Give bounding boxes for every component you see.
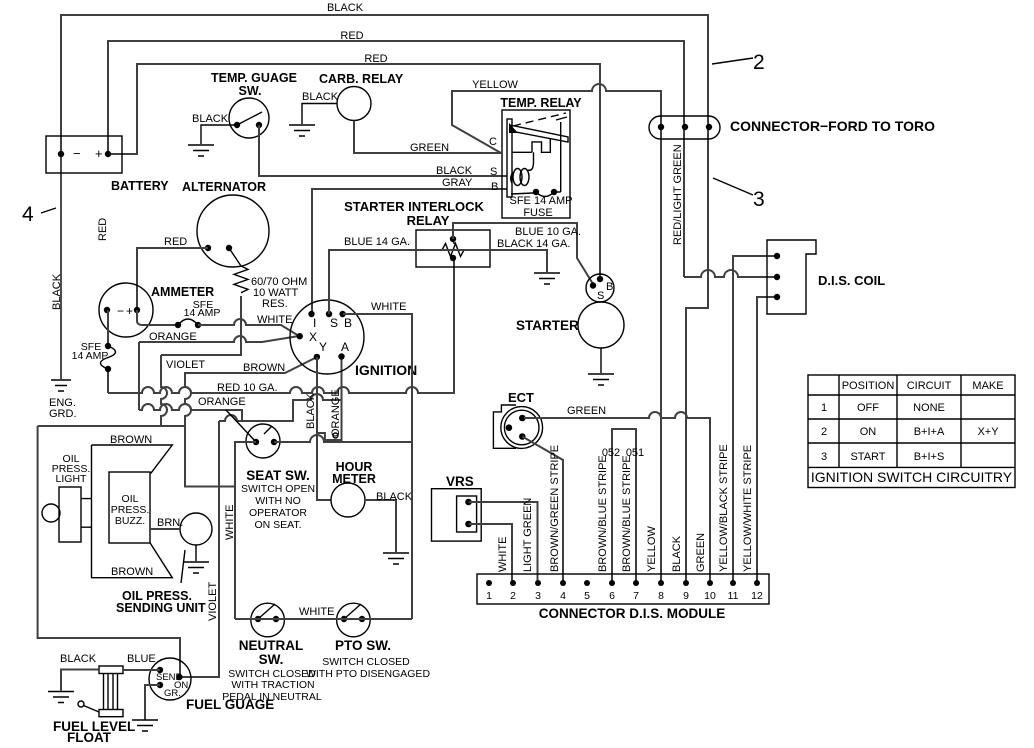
svg-text:START: START (850, 451, 885, 463)
svg-text:BROWN/BLUE STRIPE: BROWN/BLUE STRIPE (597, 455, 609, 572)
svg-text:SW.: SW. (239, 84, 262, 98)
svg-text:IGNITION: IGNITION (355, 362, 417, 378)
svg-text:YELLOW/BLACK STRIPE: YELLOW/BLACK STRIPE (718, 444, 730, 572)
svg-text:ORANGE: ORANGE (149, 331, 197, 343)
svg-text:WITH NO: WITH NO (255, 495, 301, 507)
temp relay fuse (510, 122, 573, 219)
oil press sending unit (116, 513, 212, 615)
temp relay armature (509, 113, 568, 142)
svg-text:9: 9 (683, 590, 689, 602)
svg-text:11: 11 (728, 590, 739, 602)
svg-text:BROWN: BROWN (243, 362, 285, 374)
svg-text:14 AMP: 14 AMP (184, 307, 221, 319)
connector ford to toro oval (649, 116, 935, 139)
svg-text:6: 6 (609, 590, 615, 602)
svg-text:7: 7 (633, 590, 639, 602)
wire green carb relay to temp relay C (354, 121, 501, 155)
wire feed to fuel gauge send (38, 426, 180, 677)
svg-text:SFE 14 AMP: SFE 14 AMP (510, 195, 573, 207)
ground fuel gr (132, 720, 158, 731)
svg-text:4: 4 (22, 203, 34, 226)
neutral switch (222, 603, 322, 703)
wire yellow temp relay C to connector (452, 79, 661, 153)
svg-text:B: B (491, 181, 498, 193)
svg-text:BLACK 14 GA.: BLACK 14 GA. (497, 238, 570, 250)
svg-text:STARTER INTERLOCK: STARTER INTERLOCK (344, 199, 484, 214)
svg-text:BROWN: BROWN (110, 434, 152, 446)
wire violet column left (161, 355, 205, 426)
svg-text:LIGHT GREEN: LIGHT GREEN (522, 498, 534, 572)
svg-text:RES.: RES. (262, 298, 288, 310)
wire gray relay B to ignition I (312, 177, 507, 314)
svg-text:GRD.: GRD. (49, 408, 77, 420)
svg-text:ON SEAT.: ON SEAT. (254, 519, 301, 531)
carb relay (302, 72, 404, 121)
svg-text:+: + (126, 304, 133, 318)
svg-text:BROWN: BROWN (111, 566, 153, 578)
svg-text:BROWN/BLUE STRIPE: BROWN/BLUE STRIPE (621, 455, 633, 572)
svg-text:BLUE 10 GA.: BLUE 10 GA. (515, 226, 581, 238)
svg-text:X+Y: X+Y (977, 426, 999, 438)
wire red connector to DIS coil middle pin with hops (684, 127, 777, 277)
svg-text:2: 2 (753, 51, 765, 74)
oil press buzzer horn (92, 434, 173, 578)
svg-text:WHITE: WHITE (257, 314, 292, 326)
svg-text:ORANGE: ORANGE (330, 389, 342, 437)
starter motor (516, 302, 624, 348)
wire black temp switch to relay S (259, 125, 507, 177)
svg-text:RELAY: RELAY (407, 213, 450, 228)
fuse sfe 14 amp ammeter right (137, 299, 220, 328)
svg-text:14 AMP: 14 AMP (72, 350, 109, 362)
wire yellow/white stripe coil to pin 12 (757, 297, 777, 583)
svg-text:RED: RED (164, 236, 187, 248)
svg-text:I: I (313, 316, 316, 330)
svg-text:B: B (606, 281, 613, 293)
svg-text:1: 1 (821, 402, 827, 414)
label red vertical battery (97, 218, 109, 241)
svg-text:GREEN: GREEN (567, 405, 606, 417)
wire blue 10 ga interlock to starter S (453, 223, 593, 284)
fuse sfe 14 amp battery column (72, 310, 116, 393)
svg-text:ECT: ECT (508, 390, 534, 405)
wire green ect to pin 10 (524, 405, 710, 583)
svg-text:BUZZ.: BUZZ. (115, 515, 145, 527)
svg-text:BLACK: BLACK (302, 91, 339, 103)
svg-text:CONNECTOR−FORD TO TORO: CONNECTOR−FORD TO TORO (730, 118, 935, 134)
svg-text:1: 1 (486, 590, 492, 602)
svg-text:8: 8 (658, 590, 664, 602)
temp guage switch (211, 71, 297, 138)
pin wire labels vertical (497, 444, 754, 572)
wire orange upper to ignition X (139, 331, 299, 343)
wire resistor drop to left column (161, 296, 241, 355)
svg-text:B+I+A: B+I+A (914, 426, 945, 438)
svg-text:12: 12 (751, 590, 763, 602)
svg-text:ALTERNATOR: ALTERNATOR (182, 180, 266, 194)
svg-text:LIGHT: LIGHT (56, 473, 88, 485)
wire violet to fuel gauge (181, 421, 219, 677)
ground black 14 ga (534, 273, 560, 284)
wire seat switch right to white column (274, 435, 412, 442)
wire orange link column (138, 342, 140, 410)
callout 2 (712, 51, 765, 74)
svg-text:BRN.: BRN. (157, 517, 183, 529)
alternator (182, 180, 269, 267)
ground eng grd (49, 154, 77, 420)
svg-text:SWITCH OPEN: SWITCH OPEN (241, 483, 315, 495)
svg-text:3: 3 (753, 188, 765, 211)
svg-text:YELLOW/WHITE STRIPE: YELLOW/WHITE STRIPE (742, 445, 754, 572)
svg-text:BLUE 14 GA.: BLUE 14 GA. (344, 236, 410, 248)
temp relay inner bar (507, 119, 512, 197)
svg-text:A: A (341, 340, 349, 354)
wire light green vrs to pin 3 (469, 502, 538, 583)
svg-text:WHITE: WHITE (371, 301, 406, 313)
wire black ignition Y to hour meter (305, 357, 331, 500)
seat switch (226, 410, 315, 531)
oil press buzz box (109, 472, 150, 543)
svg-text:FUEL GUAGE: FUEL GUAGE (186, 697, 274, 712)
svg-text:RED/LIGHT GREEN: RED/LIGHT GREEN (672, 144, 684, 245)
temp relay coil (511, 152, 534, 185)
svg-text:−: − (117, 304, 124, 318)
temp relay box (489, 96, 582, 218)
svg-text:S: S (490, 166, 497, 178)
svg-text:METER: METER (332, 472, 376, 486)
oil press light (42, 453, 92, 542)
svg-text:VIOLET: VIOLET (166, 359, 205, 371)
svg-text:GREEN: GREEN (410, 142, 449, 154)
svg-text:2: 2 (510, 590, 516, 602)
svg-text:BLACK: BLACK (60, 653, 97, 665)
starter interlock relay (344, 199, 490, 267)
wire red battery to ignition B feed (108, 53, 600, 279)
svg-text:2: 2 (821, 426, 827, 438)
svg-text:BATTERY: BATTERY (111, 179, 169, 193)
svg-text:GREEN: GREEN (695, 533, 707, 572)
resistor 60/70 ohm (229, 248, 307, 310)
callout 3 (713, 178, 765, 211)
svg-text:BLUE: BLUE (127, 653, 156, 665)
ground hour meter (383, 553, 409, 564)
bus red 10 ga (108, 258, 454, 394)
label red/light green (672, 144, 684, 245)
svg-text:OPERATOR: OPERATOR (249, 507, 307, 519)
svg-text:WITH TRACTION: WITH TRACTION (231, 679, 314, 691)
svg-text:BLACK: BLACK (671, 535, 683, 572)
svg-text:FUSE: FUSE (523, 207, 552, 219)
svg-text:ORANGE: ORANGE (198, 396, 246, 408)
svg-text:SEAT SW.: SEAT SW. (246, 468, 310, 483)
ground temp guage switch (188, 113, 237, 156)
ground float black (48, 692, 74, 703)
svg-text:CIRCUIT: CIRCUIT (907, 380, 952, 392)
svg-text:WHITE: WHITE (224, 505, 236, 540)
svg-text:X: X (309, 330, 317, 344)
svg-text:RED: RED (340, 30, 363, 42)
wire link to oil press area (38, 425, 185, 427)
ground carb relay (289, 104, 337, 137)
svg-text:BLACK: BLACK (376, 491, 413, 503)
wire gr fuel gauge to ground (145, 685, 160, 720)
svg-text:AMMETER: AMMETER (151, 285, 214, 299)
wire ignition S column (328, 249, 330, 314)
wire white fuse to ignition X (198, 314, 299, 336)
ammeter (99, 283, 214, 337)
wire red alternator to ammeter (137, 236, 208, 310)
ignition switch (290, 300, 417, 378)
ect sensor (493, 390, 542, 448)
svg-text:BLACK: BLACK (436, 165, 473, 177)
svg-text:D.I.S. COIL: D.I.S. COIL (818, 273, 885, 288)
fuel gauge (149, 658, 274, 712)
svg-text:SWITCH CLOSED: SWITCH CLOSED (322, 656, 410, 668)
wire brown ignition Y drop (185, 357, 317, 487)
wire brown/green stripe ect to pin 4 (522, 437, 563, 584)
wire bracket 052 051 pins 6 7 (602, 429, 644, 583)
wire red/light green connector to pin 8 (660, 127, 662, 583)
svg-text:CARB. RELAY: CARB. RELAY (319, 72, 404, 86)
wire black float to ground (60, 653, 99, 691)
svg-text:NONE: NONE (913, 402, 945, 414)
svg-text:Y: Y (319, 340, 327, 354)
wire white vrs to pin 2 (469, 524, 513, 583)
pto switch (306, 603, 430, 680)
svg-text:S: S (597, 290, 604, 302)
svg-text:SW.: SW. (259, 652, 284, 667)
svg-text:POSITION: POSITION (842, 380, 895, 392)
svg-text:GR.: GR. (164, 688, 181, 699)
vrs sensor (432, 474, 482, 541)
dis coil (767, 240, 885, 314)
wire white neutral to pto chain (235, 606, 412, 619)
wire yellow/black stripe coil to pin 11 (733, 256, 777, 583)
svg-text:BLACK: BLACK (305, 392, 317, 429)
svg-text:4: 4 (560, 590, 566, 602)
svg-text:NEUTRAL: NEUTRAL (239, 638, 304, 653)
wire blue float to fuel gauge (123, 653, 160, 670)
wire blue 14 ga (329, 236, 570, 272)
wire white ignition B to pto column (343, 301, 412, 619)
svg-text:FLOAT: FLOAT (67, 730, 112, 745)
svg-text:WHITE: WHITE (299, 606, 334, 618)
svg-text:VRS: VRS (446, 474, 474, 489)
svg-text:RED 10 GA.: RED 10 GA. (217, 382, 278, 394)
svg-text:OFF: OFF (857, 402, 879, 414)
svg-text:YELLOW: YELLOW (646, 526, 658, 572)
svg-text:WHITE: WHITE (497, 537, 509, 572)
svg-text:+: + (95, 146, 103, 161)
svg-text:B+I+S: B+I+S (914, 451, 945, 463)
label orange vertical A wire (330, 389, 342, 437)
temp relay contact step (512, 139, 550, 152)
label black vertical left (51, 273, 63, 310)
ground starter (588, 348, 614, 385)
svg-text:BLACK: BLACK (192, 113, 229, 125)
svg-text:CONNECTOR D.I.S. MODULE: CONNECTOR D.I.S. MODULE (539, 606, 726, 621)
svg-text:PTO SW.: PTO SW. (335, 638, 391, 653)
svg-text:TEMP. GUAGE: TEMP. GUAGE (211, 71, 297, 85)
wire black lower run from connector to pin 9 (686, 127, 708, 583)
connector pins (486, 580, 763, 602)
bus orange lower (139, 396, 246, 421)
svg-text:BROWN/GREEN STRIPE: BROWN/GREEN STRIPE (549, 445, 561, 572)
svg-text:TEMP. RELAY: TEMP. RELAY (500, 96, 582, 110)
svg-text:3: 3 (821, 451, 827, 463)
svg-text:MAKE: MAKE (972, 380, 1003, 392)
wire orange jog to ignition A (219, 357, 342, 441)
svg-text:−: − (73, 146, 81, 161)
svg-text:5: 5 (584, 590, 590, 602)
ignition switch circuitry table (808, 375, 1015, 488)
svg-text:B: B (344, 316, 352, 330)
svg-text:WITH PTO DISENGAGED: WITH PTO DISENGAGED (306, 668, 430, 680)
svg-text:BLACK: BLACK (327, 2, 364, 14)
fuel level float (53, 666, 135, 745)
hour meter (331, 460, 413, 552)
svg-text:SENDING UNIT: SENDING UNIT (116, 601, 206, 615)
callout 4 (22, 203, 56, 226)
wire white seat switch to neutral switch (224, 442, 256, 619)
svg-text:GRAY: GRAY (442, 177, 473, 189)
svg-text:RED: RED (364, 53, 387, 65)
svg-text:10: 10 (704, 590, 716, 602)
starter S B connector (586, 274, 614, 302)
wire black battery negative top (61, 2, 708, 154)
svg-text:IGNITION SWITCH CIRCUITRY: IGNITION SWITCH CIRCUITRY (811, 469, 1013, 485)
svg-text:YELLOW: YELLOW (472, 79, 518, 91)
battery box (46, 136, 169, 193)
svg-text:ON: ON (860, 426, 877, 438)
svg-text:VIOLET: VIOLET (207, 582, 219, 621)
svg-text:RED: RED (97, 218, 109, 241)
svg-text:STARTER: STARTER (516, 318, 579, 333)
connector dis module (477, 574, 769, 621)
svg-text:C: C (489, 136, 497, 148)
svg-text:S: S (330, 316, 338, 330)
wire red battery positive to connector (108, 30, 684, 154)
ground sending unit (183, 545, 209, 573)
svg-text:3: 3 (535, 590, 541, 602)
